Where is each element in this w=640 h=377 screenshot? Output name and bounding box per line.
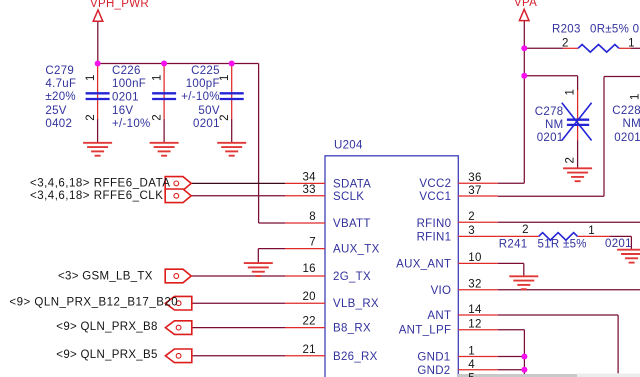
svg-text:1: 1 — [468, 346, 475, 358]
svg-text:36: 36 — [468, 172, 481, 184]
svg-text:0201: 0201 — [537, 132, 564, 144]
svg-text:2: 2 — [152, 114, 164, 121]
svg-text:2G_TX: 2G_TX — [333, 271, 371, 283]
svg-text:34: 34 — [302, 171, 316, 183]
svg-text:1: 1 — [588, 225, 595, 237]
svg-text:2: 2 — [219, 114, 231, 121]
svg-text:37: 37 — [468, 185, 481, 197]
svg-text:10: 10 — [468, 252, 481, 264]
svg-text:RFIN0: RFIN0 — [417, 218, 452, 230]
svg-text:VCC1: VCC1 — [419, 191, 451, 203]
svg-text:VPH_PWR: VPH_PWR — [90, 0, 149, 10]
svg-text:51R ±5%: 51R ±5% — [538, 239, 587, 251]
svg-text:+/-10%: +/-10% — [112, 118, 151, 130]
svg-text:1: 1 — [628, 37, 635, 49]
svg-text:C278: C278 — [535, 106, 564, 118]
svg-text:VCC2: VCC2 — [419, 178, 451, 190]
svg-text:33: 33 — [302, 184, 315, 196]
svg-text:0201: 0201 — [193, 118, 220, 130]
svg-text:VIO: VIO — [431, 285, 452, 297]
svg-text:21: 21 — [302, 344, 315, 356]
svg-text:U204: U204 — [334, 140, 363, 152]
svg-text:B26_RX: B26_RX — [333, 351, 378, 363]
svg-text:16: 16 — [302, 263, 315, 275]
svg-text:2: 2 — [468, 211, 475, 223]
svg-text:0201: 0201 — [614, 132, 640, 144]
svg-text:0201: 0201 — [605, 238, 632, 250]
svg-text:8: 8 — [309, 211, 316, 223]
svg-text:50V: 50V — [198, 105, 219, 117]
svg-text:VPA: VPA — [514, 0, 537, 9]
svg-text:AUX_TX: AUX_TX — [333, 244, 380, 256]
svg-text:VLB_RX: VLB_RX — [333, 298, 379, 310]
svg-text:2: 2 — [562, 37, 569, 49]
svg-text:16V: 16V — [112, 105, 133, 117]
svg-text:<9> QLN_PRX_B12_B17_B20: <9> QLN_PRX_B12_B17_B20 — [9, 297, 178, 309]
svg-text:2: 2 — [85, 114, 97, 121]
svg-text:C228: C228 — [612, 105, 640, 117]
svg-text:RFIN1: RFIN1 — [417, 231, 452, 243]
svg-text:<3,4,6,18> RFFE6_CLK: <3,4,6,18> RFFE6_CLK — [30, 190, 163, 202]
svg-text:20: 20 — [302, 291, 315, 303]
svg-text:3: 3 — [468, 225, 475, 237]
svg-text:100pF: 100pF — [186, 78, 220, 90]
svg-text:1: 1 — [152, 74, 164, 81]
svg-text:32: 32 — [468, 279, 481, 291]
svg-text:ANT: ANT — [427, 310, 451, 322]
svg-text:1: 1 — [630, 93, 640, 100]
svg-text:1: 1 — [85, 74, 97, 81]
svg-text:<3,4,6,18> RFFE6_DATA: <3,4,6,18> RFFE6_DATA — [30, 178, 170, 190]
svg-text:<9> QLN_PRX_B8: <9> QLN_PRX_B8 — [56, 321, 157, 333]
svg-text:NM: NM — [623, 118, 640, 130]
svg-text:R203: R203 — [552, 24, 581, 36]
svg-text:5: 5 — [468, 373, 475, 377]
svg-text:SDATA: SDATA — [333, 178, 371, 190]
svg-text:4: 4 — [468, 359, 475, 371]
svg-text:22: 22 — [302, 316, 315, 328]
svg-text:VBATT: VBATT — [333, 218, 371, 230]
svg-text:4.7uF: 4.7uF — [45, 78, 76, 90]
svg-text:B8_RX: B8_RX — [333, 323, 371, 335]
svg-text:ANT_LPF: ANT_LPF — [399, 325, 452, 337]
svg-text:R241: R241 — [499, 239, 528, 251]
svg-text:1: 1 — [565, 89, 577, 96]
svg-text:7: 7 — [309, 237, 316, 249]
svg-text:NM: NM — [545, 119, 564, 131]
svg-text:<3> GSM_LB_TX: <3> GSM_LB_TX — [58, 270, 153, 282]
svg-text:1: 1 — [219, 74, 231, 81]
svg-text:SCLK: SCLK — [333, 191, 364, 203]
svg-text:C279: C279 — [45, 65, 74, 77]
svg-text:100nF: 100nF — [112, 78, 146, 90]
svg-text:2: 2 — [522, 224, 529, 236]
svg-text:14: 14 — [468, 304, 482, 316]
svg-text:0402: 0402 — [45, 118, 72, 130]
svg-text:0R±5% 0201: 0R±5% 0201 — [590, 24, 640, 36]
svg-text:+/-10%: +/-10% — [181, 91, 220, 103]
svg-text:<9> QLN_PRX_B5: <9> QLN_PRX_B5 — [56, 349, 157, 361]
svg-text:0201: 0201 — [112, 91, 139, 103]
svg-text:AUX_ANT: AUX_ANT — [396, 258, 451, 270]
svg-text:C226: C226 — [112, 65, 141, 77]
svg-text:25V: 25V — [45, 105, 66, 117]
svg-text:GND1: GND1 — [417, 352, 450, 364]
svg-text:C225: C225 — [191, 65, 220, 77]
svg-text:±20%: ±20% — [45, 91, 76, 103]
svg-text:2: 2 — [565, 157, 577, 164]
svg-text:GND2: GND2 — [417, 365, 450, 377]
svg-text:12: 12 — [468, 319, 481, 331]
